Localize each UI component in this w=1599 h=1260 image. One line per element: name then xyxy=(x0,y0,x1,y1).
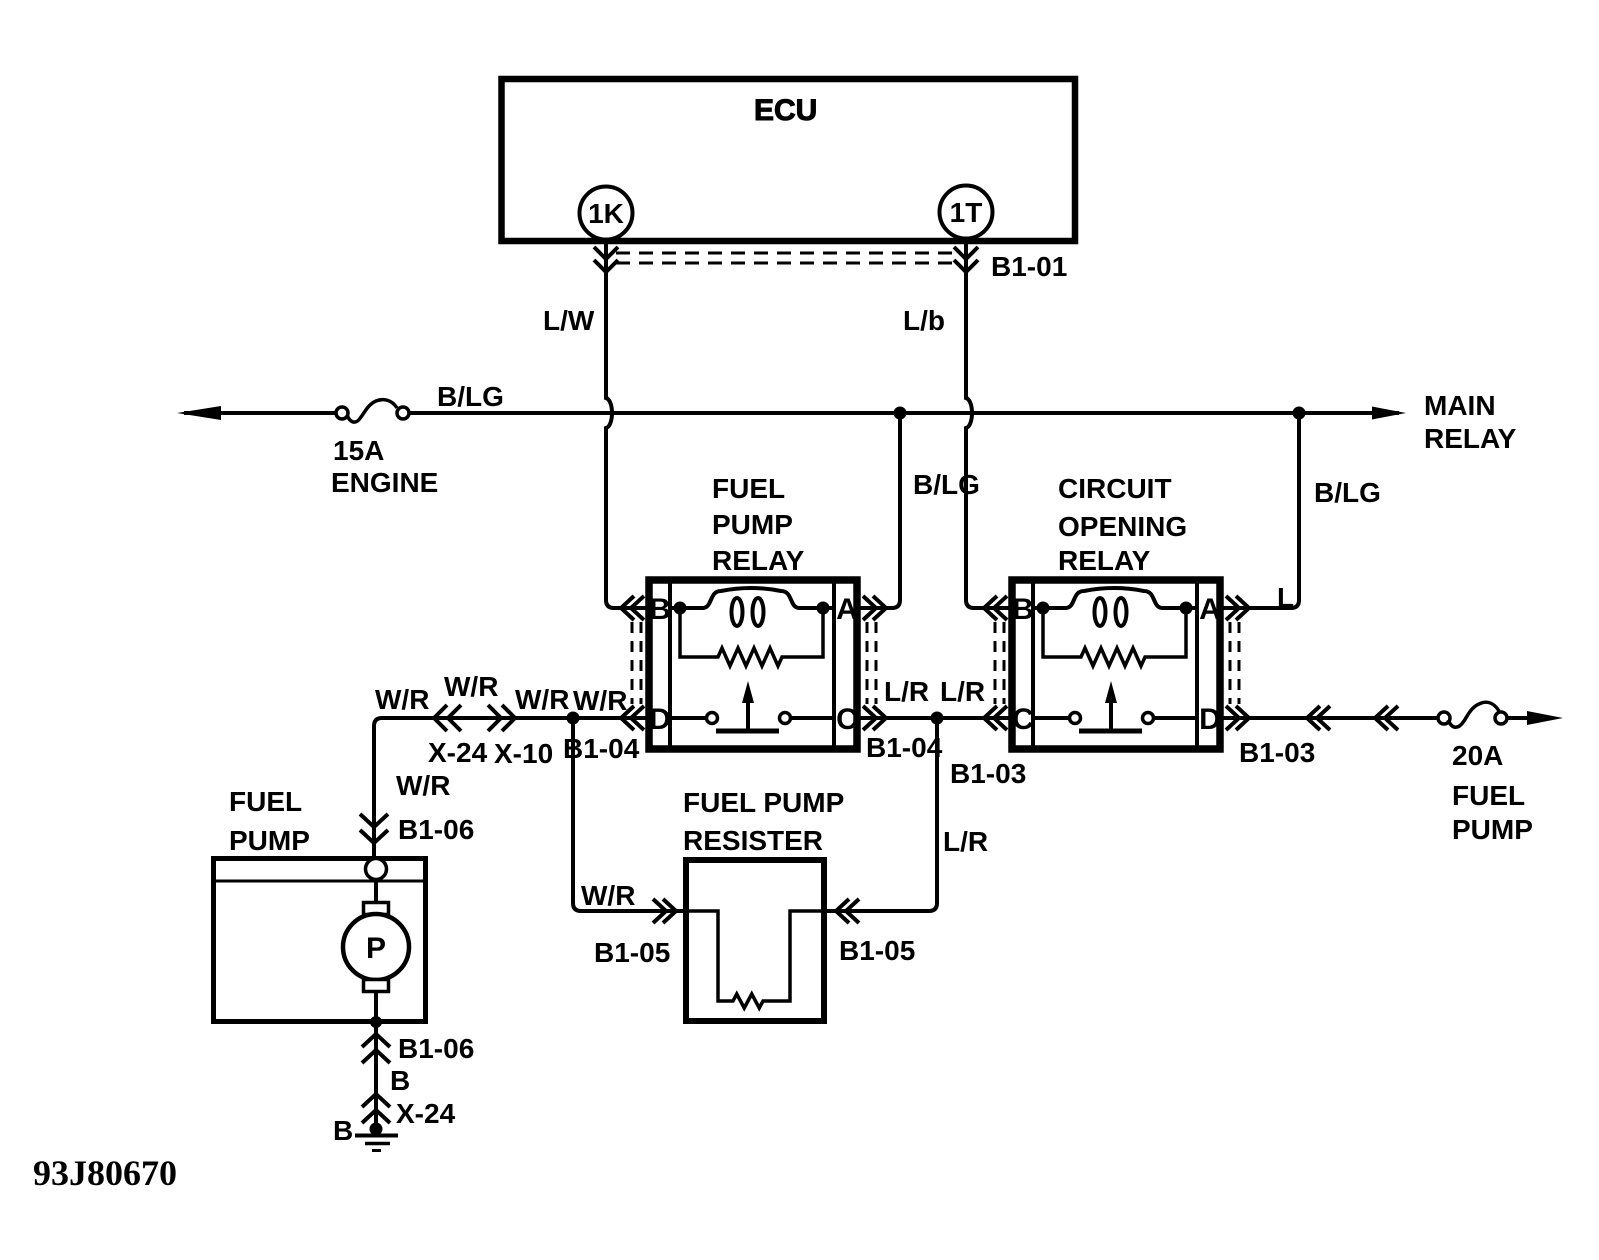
relay K2 CIRCUIT OPENING RELAY box xyxy=(1012,580,1220,749)
wire L/R from relay K2 pin D right to 20A fuse xyxy=(1221,716,1438,720)
svg-text:C: C xyxy=(836,703,858,736)
wire B/LG down from right junction to circuit opening relay pin A xyxy=(1221,413,1299,608)
svg-text:20A: 20A xyxy=(1452,740,1503,771)
connector B1-01 chevrons at pin 1T xyxy=(954,247,978,272)
svg-text:P: P xyxy=(366,932,386,965)
connector X-10 chevrons xyxy=(488,705,515,731)
svg-text:MAIN: MAIN xyxy=(1424,390,1496,421)
svg-text:W/R: W/R xyxy=(444,671,498,702)
connector B1-05 chevrons right xyxy=(836,899,859,923)
svg-text:B1-03: B1-03 xyxy=(950,758,1026,789)
svg-text:B1-04: B1-04 xyxy=(866,732,943,763)
svg-text:X-24: X-24 xyxy=(396,1098,456,1129)
node junction L/R branch xyxy=(931,712,944,725)
connector dashed boundary right of relay K2 xyxy=(1230,622,1239,704)
svg-text:1K: 1K xyxy=(588,198,624,229)
svg-text:X-24: X-24 xyxy=(428,737,488,768)
svg-text:A: A xyxy=(836,593,858,626)
relay K1 switch contacts between pins D and C xyxy=(670,713,834,724)
svg-text:ECU: ECU xyxy=(754,94,817,127)
svg-text:L/W: L/W xyxy=(543,305,595,336)
relay K1 coil node dots xyxy=(674,602,687,615)
relay K2 armature arrow xyxy=(1079,681,1142,731)
svg-text:L: L xyxy=(1277,582,1294,613)
wire W/R from relay K1 pin D left and down to fuel pump xyxy=(374,718,649,856)
svg-text:W/R: W/R xyxy=(396,770,450,801)
fuel pump M1 box xyxy=(213,859,426,1022)
connector dashed boundary left of relay K2 xyxy=(995,622,1004,704)
svg-text:L/R: L/R xyxy=(884,676,929,707)
wire W/R branch down to fuel pump resister xyxy=(573,718,686,911)
wire L/R between relay K1 pin C and relay K2 pin C xyxy=(857,716,1012,720)
connector dashed boundary left of relay K1 xyxy=(632,622,641,704)
svg-text:1T: 1T xyxy=(950,197,983,228)
relay K1 coil between pins B and A xyxy=(670,588,834,626)
connector dashed boundary right of relay K1 xyxy=(867,622,876,704)
node junction at fuel pump bottom xyxy=(370,1016,382,1028)
node junction on B/LG line feeding fuel pump relay pin A xyxy=(894,407,907,420)
connector chevrons at relay K1 pin A xyxy=(863,596,886,620)
relay K1 FUEL PUMP RELAY box xyxy=(649,580,857,749)
svg-text:D: D xyxy=(1199,703,1221,736)
svg-text:RELAY: RELAY xyxy=(712,545,805,576)
ECU pin 1T xyxy=(940,186,993,239)
svg-text:FUEL: FUEL xyxy=(1452,780,1525,811)
label CIRCUIT OPENING RELAY xyxy=(1058,473,1187,576)
connector chevrons at relay K2 pin A xyxy=(1226,596,1249,620)
svg-text:A: A xyxy=(1199,593,1221,626)
relay K1 armature arrow xyxy=(716,681,779,731)
connector chevrons at relay K1 pin B xyxy=(621,596,644,620)
arrow right end to 20A fuel pump feed xyxy=(1527,711,1563,725)
svg-text:RESISTER: RESISTER xyxy=(683,825,823,856)
svg-text:B: B xyxy=(390,1065,410,1096)
relay K1 parallel resistor xyxy=(680,608,823,666)
relay K2 switch contacts between pins C and D xyxy=(1033,713,1197,724)
svg-text:FUEL: FUEL xyxy=(229,786,302,817)
connector B1-06 chevrons up xyxy=(362,1034,390,1063)
svg-text:B1-05: B1-05 xyxy=(839,935,915,966)
svg-text:X-10: X-10 xyxy=(494,738,553,769)
svg-text:W/R: W/R xyxy=(581,880,635,911)
relay K2 parallel resistor xyxy=(1043,608,1186,666)
svg-text:FUEL: FUEL xyxy=(712,473,785,504)
svg-text:B/LG: B/LG xyxy=(437,381,504,412)
wire B/LG down from junction to fuel pump relay pin A xyxy=(857,413,900,608)
svg-text:B: B xyxy=(649,593,671,626)
connector B1-01 chevrons at pin 1K xyxy=(594,247,618,272)
connector chevrons at relay K1 pin D xyxy=(621,706,644,730)
svg-text:CIRCUIT: CIRCUIT xyxy=(1058,473,1172,504)
svg-text:B1-06: B1-06 xyxy=(398,1033,474,1064)
wire B/LG main horizontal line xyxy=(184,411,1399,415)
wire L/W from 1K down to fuel pump relay pin B (hop over B/LG line) xyxy=(606,242,649,608)
fuse 20A FUEL PUMP xyxy=(1438,702,1507,727)
ground xyxy=(355,1123,398,1151)
wire L/R branch down to fuel pump resister xyxy=(824,718,937,911)
fuel pump motor P xyxy=(343,880,409,1024)
svg-text:B: B xyxy=(333,1115,353,1146)
connector B1-01 dashed boundary xyxy=(616,253,956,263)
svg-text:W/R: W/R xyxy=(573,685,627,716)
svg-text:B/LG: B/LG xyxy=(913,469,980,500)
svg-text:B1-03: B1-03 xyxy=(1239,737,1315,768)
node junction B1-04 branch xyxy=(567,712,580,725)
connector chevrons at relay K1 pin C xyxy=(863,706,886,730)
svg-text:B1-01: B1-01 xyxy=(991,251,1067,282)
svg-text:L/b: L/b xyxy=(903,305,945,336)
connector X-24 chevrons up xyxy=(362,1094,390,1123)
svg-text:PUMP: PUMP xyxy=(1452,814,1533,845)
connector B1-06 chevrons down xyxy=(360,814,388,843)
svg-text:C: C xyxy=(1012,703,1034,736)
arrow right end of B/LG line to MAIN RELAY xyxy=(1372,407,1406,420)
connector chevrons at relay K2 pin B xyxy=(984,596,1007,620)
relay K2 coil between pins B and A xyxy=(1033,588,1197,626)
svg-text:D: D xyxy=(649,703,671,736)
svg-text:OPENING: OPENING xyxy=(1058,511,1187,542)
svg-text:B1-05: B1-05 xyxy=(594,937,670,968)
svg-text:B1-06: B1-06 xyxy=(398,814,474,845)
label FUEL PUMP RESISTER xyxy=(683,787,844,856)
svg-text:B: B xyxy=(1012,593,1034,626)
connector chevrons B1-03 inline 1 xyxy=(1307,706,1330,730)
svg-text:ENGINE: ENGINE xyxy=(331,467,438,498)
connector chevrons inline 2 xyxy=(1375,706,1398,730)
label FUEL PUMP component xyxy=(229,786,310,856)
wire B from fuel pump to ground xyxy=(374,1024,378,1128)
fuse 15A ENGINE xyxy=(336,400,409,422)
arrow left end of B/LG line xyxy=(177,406,221,420)
svg-text:L/R: L/R xyxy=(943,826,988,857)
label FUEL PUMP RELAY xyxy=(712,473,805,576)
svg-text:93J80670: 93J80670 xyxy=(33,1153,177,1193)
svg-text:W/R: W/R xyxy=(515,684,569,715)
svg-text:PUMP: PUMP xyxy=(229,825,310,856)
ECU box xyxy=(502,79,1076,241)
connector X-24 chevrons xyxy=(434,705,461,731)
svg-text:15A: 15A xyxy=(333,435,384,466)
fuel pump inlet terminal circle xyxy=(366,859,387,880)
svg-text:W/R: W/R xyxy=(375,684,429,715)
connector B1-05 chevrons left xyxy=(653,899,676,923)
svg-text:L/R: L/R xyxy=(940,676,985,707)
wire to fuel pump feed arrow xyxy=(1507,716,1537,720)
svg-text:FUEL PUMP: FUEL PUMP xyxy=(683,787,844,818)
svg-text:PUMP: PUMP xyxy=(712,509,793,540)
svg-text:B/LG: B/LG xyxy=(1314,477,1381,508)
ECU pin 1K xyxy=(580,187,633,240)
wire L/b from 1T down to circuit opening relay pin B (hop over B/LG line) xyxy=(966,242,1012,608)
connector chevrons at relay K2 pin C xyxy=(984,706,1007,730)
resistor R1 internal element xyxy=(686,911,824,1008)
node junction on B/LG line feeding circuit opening relay pin A xyxy=(1293,407,1306,420)
connector chevrons at relay K2 pin D xyxy=(1226,706,1249,730)
relay K2 coil node dots xyxy=(1037,602,1050,615)
svg-text:RELAY: RELAY xyxy=(1424,423,1517,454)
svg-text:RELAY: RELAY xyxy=(1058,545,1151,576)
resistor R1 FUEL PUMP RESISTER box xyxy=(686,860,824,1021)
